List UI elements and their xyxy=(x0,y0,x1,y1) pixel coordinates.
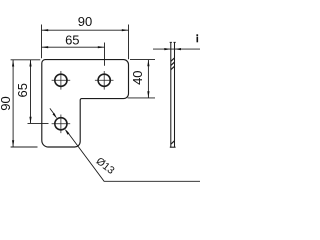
arrow 40 bottom xyxy=(147,91,149,98)
dim 65 top: dimension line xyxy=(42,46,105,48)
side view bottom cap xyxy=(170,146,176,148)
arrow thickness left xyxy=(164,48,171,50)
hole H1 circle xyxy=(55,74,67,86)
arrow 90-left bottom xyxy=(12,140,14,147)
arrow 90-top right xyxy=(122,29,129,31)
leader line for hole dia xyxy=(50,108,200,181)
left extension lines xyxy=(11,60,49,147)
arrow leader SE xyxy=(65,129,70,135)
hole H3 circle xyxy=(55,118,67,130)
dim 90 left: dimension line xyxy=(12,60,14,147)
arrow 65-left bottom xyxy=(29,117,31,124)
arrow 65-top left xyxy=(42,46,49,48)
dim 90 top: dimension line xyxy=(42,29,129,31)
thickness dim line xyxy=(153,48,200,50)
arrow 40 top xyxy=(147,60,149,67)
dim 40 right: dimension line xyxy=(147,60,149,98)
arrow 90-left top xyxy=(12,60,14,67)
svg-text:40: 40 xyxy=(130,70,145,84)
svg-text:90: 90 xyxy=(0,96,13,110)
plate outline xyxy=(42,60,129,147)
label t fragment xyxy=(196,34,198,42)
arrow thickness right xyxy=(175,48,182,50)
hole H3 cross xyxy=(52,115,71,134)
side view strip xyxy=(171,42,175,147)
dim 65 top: extension line xyxy=(104,43,106,66)
hole H1 cross xyxy=(52,71,71,90)
dim 65 left: dimension line xyxy=(30,60,32,124)
svg-text:65: 65 xyxy=(65,32,79,47)
arrow 90-top left xyxy=(42,29,49,31)
side view top caps xyxy=(170,41,176,43)
hole H2 circle xyxy=(98,74,110,86)
arrowheads xyxy=(12,29,181,147)
arrow leader NW xyxy=(53,113,58,119)
arrow 65-top right xyxy=(98,46,105,48)
svg-text:65: 65 xyxy=(15,83,30,97)
dim 90 top: extension lines xyxy=(42,25,129,60)
arrow 65-left top xyxy=(29,60,31,67)
svg-text:90: 90 xyxy=(78,14,92,29)
dim 40 right: extension lines xyxy=(128,60,156,98)
hole H2 cross xyxy=(95,71,114,90)
side view hatch xyxy=(171,58,175,145)
